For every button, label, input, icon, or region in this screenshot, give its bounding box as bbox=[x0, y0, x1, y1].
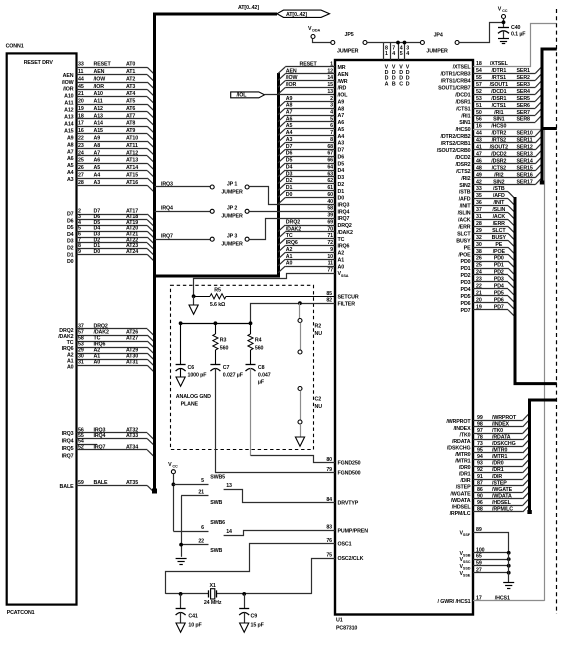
svg-text:SIN2: SIN2 bbox=[459, 183, 470, 189]
svg-text:10 pF: 10 pF bbox=[188, 623, 202, 629]
svg-text:/HCS0: /HCS0 bbox=[455, 127, 470, 133]
svg-text:21: 21 bbox=[78, 91, 84, 97]
svg-text:A12: A12 bbox=[64, 108, 74, 114]
svg-text:/TK0: /TK0 bbox=[460, 432, 471, 438]
wire FILTER net bbox=[251, 304, 336, 324]
svg-text:/CTS1: /CTS1 bbox=[456, 106, 471, 112]
svg-text:JUMPER: JUMPER bbox=[221, 190, 243, 196]
svg-text:23: 23 bbox=[78, 143, 84, 149]
chip pin 61 D1 row bbox=[285, 190, 335, 192]
svg-text:IRQ4: IRQ4 bbox=[94, 433, 106, 439]
chip pin 67 D6 row bbox=[285, 156, 335, 158]
svg-text:21: 21 bbox=[198, 490, 204, 496]
svg-text:26: 26 bbox=[78, 165, 84, 171]
svg-text:75: 75 bbox=[326, 552, 332, 558]
svg-text:PC87310: PC87310 bbox=[336, 626, 357, 632]
wire pin 8 D1 bbox=[77, 248, 148, 250]
svg-text:D5: D5 bbox=[67, 225, 74, 231]
svg-text:FILTER: FILTER bbox=[338, 301, 356, 307]
svg-text:27: 27 bbox=[78, 172, 84, 178]
svg-text:DRQ2: DRQ2 bbox=[59, 328, 73, 334]
svg-text:AT[0..42]: AT[0..42] bbox=[238, 5, 259, 11]
chip pin 10 A1 row bbox=[285, 259, 335, 261]
capacitor C8 bbox=[246, 364, 256, 366]
svg-text:/MTR1: /MTR1 bbox=[455, 459, 470, 465]
svg-text:8: 8 bbox=[330, 137, 333, 143]
chip pin 68 D7 row bbox=[285, 149, 335, 151]
svg-text:26: 26 bbox=[476, 256, 482, 262]
node analog rail bbox=[181, 323, 251, 325]
svg-text:85: 85 bbox=[326, 291, 332, 297]
svg-text:PD3: PD3 bbox=[461, 280, 471, 286]
svg-text:15 pF: 15 pF bbox=[251, 623, 265, 629]
svg-text:16: 16 bbox=[78, 128, 84, 134]
svg-text:/AFD: /AFD bbox=[459, 197, 471, 203]
svg-text:D0: D0 bbox=[94, 249, 101, 255]
chip pin 14 /WR row bbox=[285, 80, 335, 82]
switch SWB terminal 22 bbox=[181, 544, 208, 546]
svg-text:AT5: AT5 bbox=[126, 99, 135, 105]
svg-text:/DAK2: /DAK2 bbox=[58, 334, 73, 340]
svg-text:A6: A6 bbox=[286, 116, 293, 122]
svg-text:SER3: SER3 bbox=[517, 82, 531, 88]
wire OSC1 to crystal bbox=[166, 544, 336, 594]
wire pin 45 /IOR bbox=[77, 89, 148, 91]
svg-text:D1: D1 bbox=[286, 185, 293, 191]
wire pin 22 A9 bbox=[77, 141, 148, 143]
svg-text:µF: µF bbox=[258, 380, 265, 386]
svg-text:77: 77 bbox=[327, 268, 333, 274]
svg-text:6: 6 bbox=[201, 525, 204, 531]
chip pin 7 A4 row bbox=[285, 135, 335, 137]
chip pin 66 D5 row bbox=[285, 163, 335, 165]
svg-text:A0: A0 bbox=[94, 360, 101, 366]
analog section dashed box bbox=[171, 285, 314, 449]
svg-text:/DAK2: /DAK2 bbox=[338, 230, 353, 236]
svg-text:D: D bbox=[406, 81, 410, 87]
svg-text:D4: D4 bbox=[286, 164, 293, 170]
svg-text:AT27: AT27 bbox=[126, 336, 138, 342]
wire pin 6 D3 bbox=[77, 237, 148, 239]
switch SWB terminal 21 bbox=[181, 495, 208, 497]
svg-text:A5: A5 bbox=[67, 163, 74, 169]
svg-text:SER15: SER15 bbox=[517, 165, 533, 171]
svg-text:IRQ7: IRQ7 bbox=[62, 454, 74, 460]
svg-text:AT1: AT1 bbox=[126, 69, 135, 75]
svg-text:16: 16 bbox=[476, 124, 482, 130]
svg-text:C7: C7 bbox=[223, 365, 230, 371]
svg-text:A3: A3 bbox=[67, 177, 74, 183]
svg-text:SWB: SWB bbox=[210, 548, 222, 554]
chip pin 62 D2 row bbox=[285, 183, 335, 185]
svg-text:SER10: SER10 bbox=[517, 131, 533, 137]
svg-text:50: 50 bbox=[476, 110, 482, 116]
ground arrow under C41 bbox=[176, 623, 185, 632]
svg-text:91: 91 bbox=[477, 474, 483, 480]
svg-text:SER1: SER1 bbox=[517, 68, 531, 74]
svg-text:DRVTYP: DRVTYP bbox=[338, 501, 359, 507]
chip pin 8 A3 row bbox=[285, 142, 335, 144]
svg-text:D1: D1 bbox=[67, 252, 74, 258]
wire /HCS0 gray to right bbox=[473, 129, 545, 131]
wire pin 44 /IOW bbox=[77, 82, 148, 84]
svg-text:A: A bbox=[385, 81, 389, 87]
ground VSS bbox=[503, 582, 514, 584]
svg-text:C2: C2 bbox=[315, 397, 322, 403]
svg-text:AT6: AT6 bbox=[126, 106, 135, 112]
svg-text:U1: U1 bbox=[336, 618, 343, 624]
svg-text:/XTSEL: /XTSEL bbox=[453, 65, 472, 71]
resistor R2 NU (not used) bbox=[298, 319, 302, 323]
svg-text:69: 69 bbox=[327, 219, 333, 225]
svg-text:VSSA: VSSA bbox=[338, 271, 349, 278]
svg-text:A8: A8 bbox=[338, 106, 345, 112]
svg-text:SER12: SER12 bbox=[517, 145, 533, 151]
svg-text:AT2: AT2 bbox=[126, 76, 135, 82]
svg-text:76: 76 bbox=[326, 538, 332, 544]
resistor R3 bbox=[215, 323, 217, 334]
svg-text:17: 17 bbox=[78, 121, 84, 127]
svg-text:A10: A10 bbox=[64, 94, 74, 100]
svg-text:5.6 kΩ: 5.6 kΩ bbox=[210, 302, 226, 308]
svg-text:7: 7 bbox=[330, 130, 333, 136]
chip pin 9 A2 row bbox=[285, 252, 335, 254]
svg-text:SER13: SER13 bbox=[517, 151, 533, 157]
svg-text:JP 2: JP 2 bbox=[227, 206, 237, 212]
ground analog arrow under C2 bbox=[295, 437, 304, 446]
svg-text:NU: NU bbox=[315, 331, 323, 337]
svg-text:/RI2: /RI2 bbox=[461, 176, 470, 182]
wire pin 33 RESET bbox=[77, 67, 148, 69]
wire JP5 to VDD pins bbox=[367, 42, 383, 44]
svg-text:C40: C40 bbox=[511, 25, 521, 31]
svg-text:ANALOG GND: ANALOG GND bbox=[176, 394, 211, 400]
svg-text:AT4: AT4 bbox=[126, 91, 135, 97]
svg-text:A9: A9 bbox=[286, 96, 293, 102]
svg-text:11: 11 bbox=[78, 69, 84, 75]
net tag /IOL bbox=[231, 92, 265, 98]
svg-text:20: 20 bbox=[78, 99, 84, 105]
svg-text:/ACK: /ACK bbox=[458, 218, 471, 224]
wire pin 23 A8 bbox=[77, 148, 148, 150]
svg-text:JUMPER: JUMPER bbox=[426, 48, 448, 54]
bus AT[0..42] top horizontal bbox=[153, 13, 277, 16]
capacitor C40 bbox=[498, 27, 509, 29]
svg-text:IRQ6: IRQ6 bbox=[338, 244, 350, 250]
svg-text:/RTS2/CRB1: /RTS2/CRB1 bbox=[441, 141, 471, 147]
svg-text:66: 66 bbox=[327, 158, 333, 164]
svg-text:/CTS2: /CTS2 bbox=[456, 169, 471, 175]
svg-text:R2: R2 bbox=[315, 324, 322, 330]
svg-text:IRQ6: IRQ6 bbox=[62, 346, 74, 352]
svg-text:A14: A14 bbox=[94, 121, 104, 127]
svg-text:D7: D7 bbox=[286, 144, 293, 150]
svg-text:A2: A2 bbox=[286, 247, 293, 253]
svg-text:5: 5 bbox=[201, 478, 204, 484]
svg-text:/POE: /POE bbox=[493, 249, 506, 255]
svg-text:/DTR1/CRB3: /DTR1/CRB3 bbox=[441, 72, 471, 78]
svg-text:9: 9 bbox=[78, 249, 81, 255]
svg-text:61: 61 bbox=[327, 185, 333, 191]
svg-text:25: 25 bbox=[476, 263, 482, 269]
svg-text:IRQ4: IRQ4 bbox=[338, 209, 350, 215]
svg-text:CC: CC bbox=[172, 465, 178, 469]
wire pin 5 D4 bbox=[77, 231, 148, 233]
svg-text:A3: A3 bbox=[338, 141, 345, 147]
svg-text:VSSD: VSSD bbox=[460, 564, 471, 571]
svg-text:/WDATA: /WDATA bbox=[451, 498, 471, 504]
svg-text:AT11: AT11 bbox=[126, 143, 138, 149]
svg-text:24: 24 bbox=[78, 150, 84, 156]
svg-text:560: 560 bbox=[220, 345, 229, 351]
svg-text:JUMPER: JUMPER bbox=[337, 49, 359, 55]
svg-text:D3: D3 bbox=[338, 175, 345, 181]
svg-text:TC: TC bbox=[286, 233, 293, 239]
svg-text:A8: A8 bbox=[286, 103, 293, 109]
svg-text:PD5: PD5 bbox=[461, 294, 471, 300]
svg-text:RESET: RESET bbox=[94, 62, 112, 68]
svg-text:IRQ4: IRQ4 bbox=[161, 206, 173, 212]
svg-text:A7: A7 bbox=[67, 149, 74, 155]
svg-text:63: 63 bbox=[327, 171, 333, 177]
svg-text:DDA: DDA bbox=[312, 29, 320, 33]
svg-text:84: 84 bbox=[326, 497, 332, 503]
svg-text:JP5: JP5 bbox=[345, 32, 354, 38]
svg-text:22: 22 bbox=[198, 538, 204, 544]
svg-text:52: 52 bbox=[78, 444, 84, 450]
resistor R5 bbox=[194, 296, 210, 298]
chip pin 1 MR row bbox=[285, 66, 335, 68]
svg-text:SWB6: SWB6 bbox=[210, 520, 225, 526]
svg-text:R3: R3 bbox=[220, 338, 227, 344]
bus SER vertical bbox=[541, 49, 544, 184]
svg-text:A1: A1 bbox=[286, 254, 293, 260]
svg-text:/DR0: /DR0 bbox=[492, 461, 504, 467]
svg-text:AT9: AT9 bbox=[126, 128, 135, 134]
svg-text:/DIR: /DIR bbox=[492, 474, 502, 480]
svg-text:PD0: PD0 bbox=[461, 259, 471, 265]
svg-text:4: 4 bbox=[330, 109, 333, 115]
svg-text:/RTS1/CRB4: /RTS1/CRB4 bbox=[441, 79, 471, 85]
svg-text:65: 65 bbox=[476, 554, 482, 560]
svg-text:JP 3: JP 3 bbox=[227, 234, 237, 240]
wire /HCS0-/HCS1 vertical gray bbox=[544, 129, 546, 601]
svg-text:A14: A14 bbox=[64, 121, 74, 127]
crystal X1 bbox=[208, 590, 210, 597]
svg-text:IRQ4: IRQ4 bbox=[62, 439, 74, 445]
svg-text:A2: A2 bbox=[67, 352, 74, 358]
wire pin 25 A6 bbox=[77, 163, 148, 165]
svg-text:SWB5: SWB5 bbox=[210, 474, 225, 480]
svg-text:5: 5 bbox=[400, 51, 403, 57]
svg-text:A4: A4 bbox=[94, 172, 101, 178]
chip pin 63 D3 row bbox=[285, 176, 335, 178]
svg-text:JUMPER: JUMPER bbox=[221, 214, 243, 220]
svg-text:C6: C6 bbox=[188, 365, 195, 371]
svg-text:/IOL: /IOL bbox=[338, 93, 349, 99]
svg-text:PD7: PD7 bbox=[461, 308, 471, 314]
svg-text:SER5: SER5 bbox=[517, 96, 531, 102]
svg-text:A12: A12 bbox=[94, 106, 104, 112]
svg-text:A3: A3 bbox=[94, 180, 101, 186]
wire pin 21 A10 bbox=[77, 96, 148, 98]
svg-text:D3: D3 bbox=[286, 171, 293, 177]
svg-text:/RD: /RD bbox=[338, 86, 347, 92]
svg-text:VSSE: VSSE bbox=[460, 571, 471, 578]
svg-text:13: 13 bbox=[226, 483, 232, 489]
svg-text:VSSF: VSSF bbox=[460, 531, 471, 538]
wire pin 26 A5 bbox=[77, 170, 148, 172]
svg-text:A5: A5 bbox=[286, 123, 293, 129]
svg-text:AT14: AT14 bbox=[126, 165, 138, 171]
wire pin 57 /DAK2 bbox=[77, 335, 148, 337]
wire pin 16 A15 bbox=[77, 133, 148, 135]
svg-text:IRQ3: IRQ3 bbox=[62, 431, 74, 437]
svg-text:1000 pF: 1000 pF bbox=[188, 373, 208, 379]
svg-text:AT12: AT12 bbox=[126, 150, 138, 156]
svg-text:A9: A9 bbox=[67, 135, 74, 141]
svg-text:80: 80 bbox=[326, 457, 332, 463]
svg-text:C: C bbox=[399, 81, 403, 87]
svg-text:5: 5 bbox=[330, 116, 333, 122]
svg-text:AEN: AEN bbox=[63, 73, 74, 79]
svg-text:25: 25 bbox=[78, 158, 84, 164]
bus parallel port vertical bbox=[514, 197, 517, 384]
svg-text:10: 10 bbox=[327, 254, 333, 260]
chip pin 2 A9 row bbox=[285, 101, 335, 103]
svg-text:/HCS0: /HCS0 bbox=[491, 124, 506, 130]
svg-text:45: 45 bbox=[78, 84, 84, 90]
svg-text:/IOW: /IOW bbox=[286, 75, 298, 81]
wire pin 28 A3 bbox=[77, 185, 148, 187]
svg-text:D5: D5 bbox=[338, 161, 345, 167]
svg-text:/DSR1: /DSR1 bbox=[455, 99, 470, 105]
wire pin 52 IRQ7 bbox=[77, 449, 148, 451]
svg-text:D6: D6 bbox=[338, 154, 345, 160]
svg-text:SER14: SER14 bbox=[517, 158, 533, 164]
svg-text:CC: CC bbox=[502, 9, 508, 13]
svg-text:A1: A1 bbox=[338, 257, 345, 263]
svg-text:BUSY: BUSY bbox=[456, 238, 471, 244]
svg-text:A10: A10 bbox=[94, 91, 104, 97]
svg-text:A4: A4 bbox=[338, 134, 345, 140]
svg-text:PLANE: PLANE bbox=[181, 402, 199, 408]
VDD pin stubs 81 74 45 34 bbox=[383, 43, 385, 61]
wire pin 31 A0 bbox=[77, 365, 148, 367]
svg-text:/RI1: /RI1 bbox=[461, 113, 470, 119]
svg-text:A13: A13 bbox=[94, 113, 104, 119]
wire pin 3 D6 bbox=[77, 219, 148, 221]
svg-text:60: 60 bbox=[327, 192, 333, 198]
svg-text:AT35: AT35 bbox=[126, 480, 138, 486]
ground analog arrow under C6 bbox=[176, 377, 185, 386]
svg-text:IRQ6: IRQ6 bbox=[286, 240, 298, 246]
svg-text:JP 1: JP 1 bbox=[227, 182, 237, 188]
svg-text:11: 11 bbox=[328, 261, 334, 267]
svg-text:A5: A5 bbox=[338, 127, 345, 133]
svg-text:9: 9 bbox=[330, 247, 333, 253]
svg-text:SLCT: SLCT bbox=[457, 231, 471, 237]
svg-text:39: 39 bbox=[327, 213, 333, 219]
svg-text:/POE: /POE bbox=[458, 252, 471, 258]
svg-text:4: 4 bbox=[406, 51, 409, 57]
svg-text:24 MHz: 24 MHz bbox=[204, 600, 222, 606]
svg-text:A2: A2 bbox=[338, 251, 345, 257]
bus L horizontal connecting bus1 bbox=[153, 275, 280, 278]
svg-text:FGND500: FGND500 bbox=[338, 471, 361, 477]
svg-text:A0: A0 bbox=[286, 261, 293, 267]
svg-text:D0: D0 bbox=[338, 196, 345, 202]
svg-text:/IOL: /IOL bbox=[237, 93, 248, 99]
svg-text:A7: A7 bbox=[338, 113, 345, 119]
svg-text:BALE: BALE bbox=[94, 480, 109, 486]
svg-text:67: 67 bbox=[327, 151, 333, 157]
svg-text:AT[0..42]: AT[0..42] bbox=[286, 12, 307, 18]
svg-text:CONN1: CONN1 bbox=[6, 44, 24, 50]
capacitor C41 bbox=[180, 594, 182, 609]
svg-text:/IOR: /IOR bbox=[63, 87, 74, 93]
svg-text:A1: A1 bbox=[67, 358, 74, 364]
svg-text:A6: A6 bbox=[338, 120, 345, 126]
svg-text:/RPM/LC: /RPM/LC bbox=[450, 511, 471, 517]
svg-text:1: 1 bbox=[385, 51, 388, 57]
svg-text:D7: D7 bbox=[67, 212, 74, 218]
svg-text:A7: A7 bbox=[94, 150, 101, 156]
svg-text:A4: A4 bbox=[67, 170, 74, 176]
wire pin 9 D0 bbox=[77, 254, 148, 256]
svg-text:18: 18 bbox=[78, 113, 84, 119]
svg-text:A0: A0 bbox=[67, 365, 74, 371]
svg-text:0.027 µF: 0.027 µF bbox=[223, 373, 244, 379]
svg-text:RESET: RESET bbox=[300, 61, 318, 67]
svg-text:MR: MR bbox=[338, 65, 346, 71]
svg-text:D4: D4 bbox=[67, 232, 74, 238]
bus tag AT[0..42] bbox=[277, 10, 330, 17]
svg-text:RESET DRV: RESET DRV bbox=[24, 60, 54, 66]
svg-text:33: 33 bbox=[78, 62, 84, 68]
svg-text:/DCD1: /DCD1 bbox=[455, 92, 470, 98]
svg-text:28: 28 bbox=[78, 180, 84, 186]
wire pin 17 A14 bbox=[77, 126, 148, 128]
resistor R4 bbox=[250, 323, 252, 334]
svg-text:13: 13 bbox=[327, 89, 333, 95]
wire pin 24 A7 bbox=[77, 155, 148, 157]
svg-text:TC: TC bbox=[338, 237, 345, 243]
svg-text:SIN1: SIN1 bbox=[493, 117, 504, 123]
chip pin 11 A0 row bbox=[285, 266, 335, 268]
wire pin 2 D7 bbox=[77, 214, 148, 216]
svg-text:SER11: SER11 bbox=[517, 138, 533, 144]
svg-text:SER4: SER4 bbox=[517, 89, 531, 95]
wire pin 4 D5 bbox=[77, 225, 148, 227]
svg-text:BALE: BALE bbox=[60, 484, 75, 490]
svg-text:TC: TC bbox=[67, 340, 74, 346]
svg-text:D3: D3 bbox=[67, 239, 74, 245]
node crystal-C9 junction bbox=[242, 592, 246, 596]
svg-text:12: 12 bbox=[327, 68, 333, 74]
switch SWB6 terminal 6 bbox=[173, 531, 208, 533]
svg-text:/DSKCHG: /DSKCHG bbox=[447, 445, 471, 451]
svg-text:/DSR2: /DSR2 bbox=[455, 162, 470, 168]
svg-text:PD2: PD2 bbox=[461, 273, 471, 279]
svg-text:/DIR: /DIR bbox=[460, 478, 470, 484]
chip pin 12 AEN row bbox=[285, 73, 335, 75]
svg-text:D0: D0 bbox=[286, 192, 293, 198]
wire pin 30 A1 bbox=[77, 359, 148, 361]
svg-text:SER8: SER8 bbox=[517, 117, 531, 123]
svg-text:B: B bbox=[392, 81, 396, 87]
svg-text:83: 83 bbox=[326, 525, 332, 531]
